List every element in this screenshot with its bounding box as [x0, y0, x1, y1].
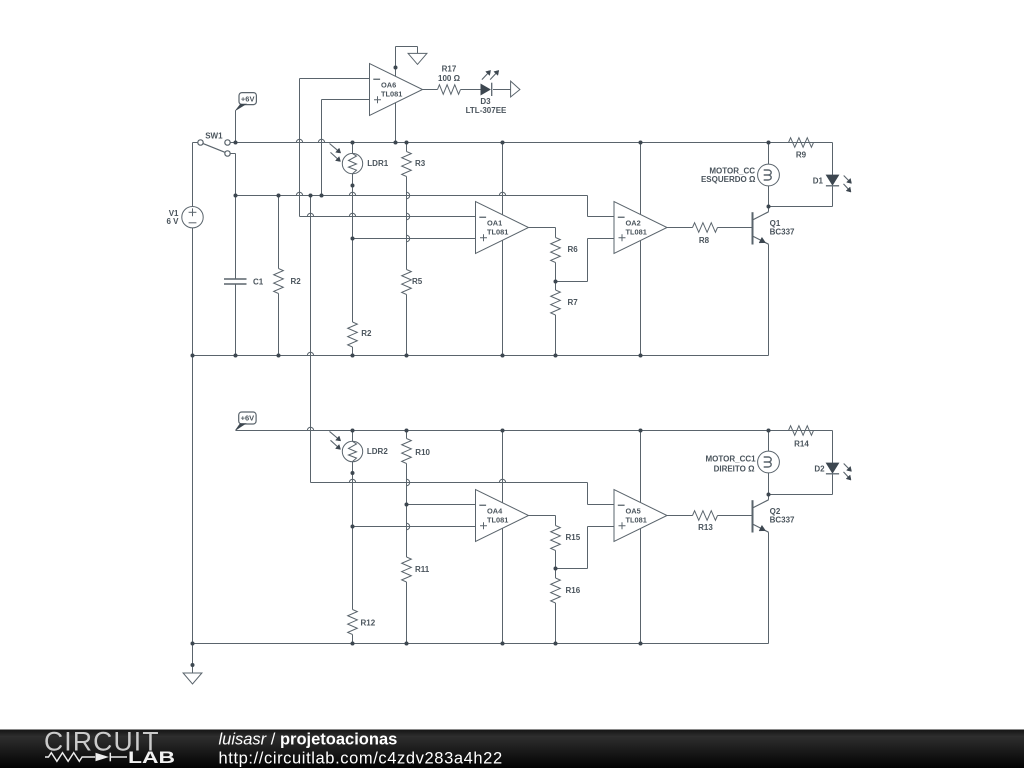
svg-text:TL081: TL081 — [626, 515, 647, 524]
svg-text:OA4: OA4 — [487, 507, 503, 516]
svg-text:LAB: LAB — [128, 749, 175, 767]
svg-text:TL081: TL081 — [487, 515, 508, 524]
svg-text:D2: D2 — [814, 464, 825, 473]
svg-text:R2: R2 — [291, 277, 302, 286]
svg-text:luisasr / projetoacionas: luisasr / projetoacionas — [219, 731, 398, 749]
svg-text:TL081: TL081 — [381, 89, 402, 98]
svg-text:OA5: OA5 — [626, 507, 641, 516]
svg-text:OA1: OA1 — [487, 219, 502, 228]
svg-text:C1: C1 — [253, 277, 264, 286]
svg-text:SW1: SW1 — [205, 131, 223, 140]
svg-text:R17: R17 — [442, 65, 457, 74]
svg-text:MOTOR_CC1: MOTOR_CC1 — [706, 455, 757, 464]
svg-text:BC337: BC337 — [770, 516, 795, 525]
svg-text:R12: R12 — [361, 618, 376, 627]
svg-text:R3: R3 — [415, 159, 426, 168]
svg-text:ESQUERDO Ω: ESQUERDO Ω — [701, 175, 756, 184]
svg-text:DIREITO Ω: DIREITO Ω — [714, 464, 756, 473]
svg-text:R7: R7 — [568, 298, 579, 307]
svg-text:+6V: +6V — [241, 414, 255, 423]
svg-text:TL081: TL081 — [626, 227, 647, 236]
svg-text:R9: R9 — [796, 151, 807, 160]
svg-text:OA2: OA2 — [626, 219, 641, 228]
svg-text:+6V: +6V — [241, 94, 255, 103]
svg-text:R14: R14 — [794, 439, 809, 448]
svg-text:http://circuitlab.com/c4zdv283: http://circuitlab.com/c4zdv283a4h22 — [219, 750, 503, 768]
svg-text:BC337: BC337 — [770, 228, 795, 237]
svg-text:LTL-307EE: LTL-307EE — [466, 106, 507, 115]
svg-text:TL081: TL081 — [487, 227, 508, 236]
svg-text:R2: R2 — [361, 329, 372, 338]
svg-text:D3: D3 — [480, 97, 491, 106]
svg-text:R10: R10 — [415, 448, 430, 457]
svg-text:LDR2: LDR2 — [367, 447, 388, 456]
svg-text:R8: R8 — [699, 236, 710, 245]
svg-text:R15: R15 — [566, 533, 581, 542]
svg-text:OA6: OA6 — [381, 81, 396, 90]
svg-text:R16: R16 — [566, 586, 581, 595]
svg-text:100 Ω: 100 Ω — [438, 74, 461, 83]
svg-text:R5: R5 — [412, 277, 423, 286]
svg-text:R11: R11 — [415, 565, 430, 574]
svg-text:R6: R6 — [568, 245, 579, 254]
svg-text:LDR1: LDR1 — [367, 159, 388, 168]
svg-text:6 V: 6 V — [166, 217, 179, 226]
svg-text:R13: R13 — [698, 523, 713, 532]
svg-text:D1: D1 — [813, 176, 824, 185]
